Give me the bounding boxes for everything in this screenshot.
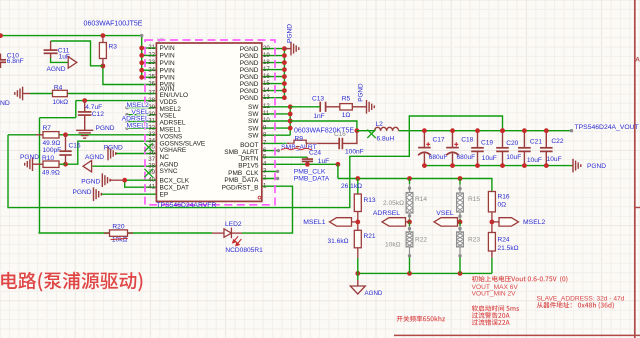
resistor R10 bbox=[43, 161, 59, 167]
svg-text:6.8uH: 6.8uH bbox=[377, 136, 395, 143]
svg-text:SW: SW bbox=[248, 118, 259, 125]
svg-text:26: 26 bbox=[148, 81, 155, 88]
svg-text:26.1kΩ: 26.1kΩ bbox=[341, 183, 362, 190]
svg-text:PGND: PGND bbox=[104, 145, 123, 152]
svg-text:C15: C15 bbox=[69, 143, 81, 150]
svg-text:TPS546D24A_VOUT: TPS546D24A_VOUT bbox=[575, 124, 639, 131]
svg-text:17: 17 bbox=[263, 66, 270, 73]
wire R16/R24 column bbox=[491, 212, 493, 233]
port MSEL1 bbox=[330, 218, 352, 226]
PGND port on VSHARE row bbox=[108, 147, 116, 161]
svg-text:MSEL1: MSEL1 bbox=[303, 219, 326, 226]
wire SW pin 10 stub bbox=[262, 120, 290, 122]
svg-text:SYNC: SYNC bbox=[160, 168, 178, 175]
blue note device address bbox=[537, 302, 614, 309]
junction VOUT sense tap bbox=[500, 128, 505, 133]
svg-text:VOUT_MIN 2V: VOUT_MIN 2V bbox=[472, 291, 517, 298]
sheet border right edge bbox=[634, 0, 636, 338]
svg-text:AGND: AGND bbox=[365, 290, 383, 297]
svg-text:PGND: PGND bbox=[240, 60, 259, 67]
red note soft start bbox=[472, 305, 519, 311]
svg-text:NCD0805R1: NCD0805R1 bbox=[225, 247, 263, 254]
svg-text:PMB_CLK: PMB_CLK bbox=[228, 170, 259, 177]
wire AGND row pin 38 bbox=[92, 165, 156, 167]
svg-text:10uF: 10uF bbox=[482, 155, 497, 162]
wire SW pin 12 stub bbox=[262, 106, 290, 108]
svg-text:PMB_DATA: PMB_DATA bbox=[224, 177, 259, 184]
svg-text:4.7uF: 4.7uF bbox=[85, 104, 102, 111]
svg-text:LED2: LED2 bbox=[225, 221, 242, 228]
wire PGND bus right of IC bbox=[283, 49, 285, 98]
svg-text:15: 15 bbox=[263, 80, 270, 87]
svg-text:16: 16 bbox=[263, 73, 270, 80]
capacitor C16 bbox=[339, 138, 342, 149]
capacitor C20 10uF bbox=[496, 131, 509, 166]
svg-text:R21: R21 bbox=[364, 233, 376, 240]
svg-text:13: 13 bbox=[263, 94, 270, 101]
wire EN/UVLO row pin 28 bbox=[76, 100, 157, 102]
wire PGND pin 15 stub bbox=[262, 83, 285, 85]
svg-text:R9: R9 bbox=[295, 135, 304, 142]
svg-text:R5: R5 bbox=[342, 95, 351, 102]
svg-text:25: 25 bbox=[148, 74, 155, 81]
svg-text:PGND: PGND bbox=[240, 46, 259, 53]
svg-text:20: 20 bbox=[263, 45, 270, 52]
svg-text:PGND: PGND bbox=[240, 74, 259, 81]
svg-text:R20: R20 bbox=[112, 223, 124, 230]
wire AGND below divider bbox=[357, 273, 359, 280]
wire SMB_ALRT stub bbox=[262, 150, 279, 152]
svg-text:1Ω: 1Ω bbox=[342, 112, 351, 119]
svg-text:SW: SW bbox=[248, 104, 259, 111]
svg-text:21.5kΩ: 21.5kΩ bbox=[498, 245, 519, 252]
svg-text:10kΩ: 10kΩ bbox=[53, 99, 69, 106]
svg-text:C20: C20 bbox=[506, 140, 518, 147]
wire output PGND rail bbox=[424, 165, 571, 167]
resistor R13 bbox=[354, 194, 361, 212]
svg-text:21: 21 bbox=[148, 44, 155, 51]
wire R3 bottom to PVIN pin 26 bbox=[103, 66, 156, 85]
junction C24 bottom bbox=[305, 162, 310, 167]
svg-text:VDD5: VDD5 bbox=[160, 99, 178, 106]
svg-text:AGND: AGND bbox=[47, 66, 66, 73]
wire C11 loop top bbox=[51, 41, 103, 66]
resistor R5 bbox=[340, 104, 353, 110]
wire net label stub MSEL1 bbox=[127, 127, 156, 129]
wire SW bus bbox=[289, 107, 291, 135]
svg-text:SLAVE_ADDRESS: 32d - 47d: SLAVE_ADDRESS: 32d - 47d bbox=[537, 296, 625, 303]
svg-text:R10: R10 bbox=[42, 155, 54, 162]
junction BP1V5 corner bbox=[336, 162, 341, 167]
svg-text:R3: R3 bbox=[109, 44, 118, 51]
junction SW-L2-boot bbox=[355, 128, 360, 133]
wire net label stub MSEL2 bbox=[127, 107, 156, 109]
svg-text:C21: C21 bbox=[530, 139, 542, 146]
junction R7-C15 bbox=[63, 132, 68, 137]
wire snubber row C13 bbox=[290, 106, 314, 108]
wire PVIN pin 21 stub bbox=[142, 47, 157, 49]
wire EN down to PG chain bbox=[75, 101, 77, 118]
svg-text:BCX_DAT: BCX_DAT bbox=[160, 184, 190, 191]
ground symbol left of R4 bbox=[15, 87, 23, 101]
capacitor C13 bbox=[320, 102, 325, 112]
wire R15/R23 column bbox=[459, 179, 461, 185]
no-ERC marker SYNC bbox=[144, 169, 152, 177]
svg-text:10uF: 10uF bbox=[527, 157, 542, 164]
PGND bus power port bbox=[291, 42, 299, 56]
gray endpoint top rail bbox=[140, 34, 143, 37]
capacitor C24 bbox=[302, 157, 313, 164]
sheet border bottom edge bbox=[394, 334, 640, 336]
svg-text:PGND: PGND bbox=[240, 95, 259, 102]
wire R20 to left vertical bbox=[39, 232, 110, 234]
svg-text:31.6kΩ: 31.6kΩ bbox=[328, 238, 349, 245]
wire SW to L2 bbox=[290, 121, 357, 131]
svg-text:BOOT: BOOT bbox=[240, 142, 258, 149]
resistor R15 (DNP) bbox=[457, 193, 464, 212]
svg-text:PGND: PGND bbox=[20, 154, 39, 161]
svg-text:PGND: PGND bbox=[240, 53, 259, 60]
svg-text:PGND: PGND bbox=[240, 67, 259, 74]
wire PMB_CLK stub bbox=[262, 170, 278, 172]
svg-text:R13: R13 bbox=[364, 197, 376, 204]
svg-text:1uF: 1uF bbox=[318, 158, 329, 165]
resistor R24 bbox=[488, 233, 495, 252]
svg-text:22: 22 bbox=[148, 52, 155, 59]
svg-text:18: 18 bbox=[263, 59, 270, 66]
PGND port BCX rows bbox=[102, 173, 110, 187]
junction C12 on EN wire bbox=[82, 98, 87, 103]
svg-text:C17: C17 bbox=[433, 137, 445, 144]
port MSEL2 bbox=[499, 218, 519, 226]
resistor R14 (DNP) bbox=[406, 193, 413, 214]
svg-text:PVIN: PVIN bbox=[160, 75, 175, 82]
svg-text:MSEL2: MSEL2 bbox=[523, 219, 546, 226]
LED LED2 bbox=[212, 228, 242, 239]
svg-text:19: 19 bbox=[263, 52, 270, 59]
wire LED to R20 bbox=[128, 232, 213, 234]
wire R10 row bbox=[33, 163, 44, 165]
wire divider top rail BP1V5 bbox=[338, 179, 492, 192]
wire R13 column bbox=[357, 179, 359, 195]
svg-text:ADRSEL: ADRSEL bbox=[373, 210, 400, 217]
resistor R9 bbox=[294, 140, 306, 146]
svg-text:L2: L2 bbox=[376, 121, 384, 128]
svg-text:PGND: PGND bbox=[81, 179, 100, 186]
wire PGND pin 17 stub bbox=[262, 69, 285, 71]
svg-text:TPS546D24ARVFR: TPS546D24ARVFR bbox=[156, 202, 216, 209]
resistor R7 bbox=[43, 132, 59, 138]
resistor R3 bbox=[99, 43, 106, 59]
wire top input rail bbox=[0, 35, 142, 37]
junction top rail left edge bbox=[0, 33, 3, 38]
wire PGD/RST_B to LED row bbox=[242, 186, 293, 233]
no-ERC marker VSHARE bbox=[144, 143, 152, 151]
wire R7 row pin 33 bbox=[8, 134, 36, 136]
svg-text:SW: SW bbox=[248, 125, 259, 132]
svg-text:C18: C18 bbox=[461, 136, 473, 143]
svg-text:EP: EP bbox=[160, 191, 169, 198]
svg-text:10kΩ: 10kΩ bbox=[385, 241, 401, 248]
svg-text:VSEL: VSEL bbox=[436, 210, 454, 217]
resistor R22 (DNP) bbox=[406, 232, 413, 247]
AGND power port near C11 bbox=[68, 57, 77, 69]
resistor R21 bbox=[354, 230, 361, 248]
svg-text:PGND: PGND bbox=[73, 189, 92, 196]
svg-text:PVIN: PVIN bbox=[160, 67, 175, 74]
wire PGND pin 13 stub bbox=[262, 97, 285, 99]
U1 right pin names and numbers bbox=[222, 45, 271, 192]
capacitor C11 bbox=[44, 41, 58, 58]
svg-text:SW: SW bbox=[248, 111, 259, 118]
svg-text:C19: C19 bbox=[481, 139, 493, 146]
PGND port left of R10 bbox=[25, 157, 33, 171]
svg-text:PMB_DATA: PMB_DATA bbox=[294, 176, 330, 183]
capacitor C15 bbox=[59, 135, 71, 164]
wire SW pin 11 stub bbox=[262, 113, 290, 115]
svg-text:PGND: PGND bbox=[587, 163, 606, 170]
svg-text:PVIN: PVIN bbox=[160, 45, 175, 52]
wire PGND pin 18 stub bbox=[262, 62, 285, 64]
svg-text:10: 10 bbox=[263, 117, 270, 124]
svg-text:100nF: 100nF bbox=[345, 148, 364, 155]
svg-text:R7: R7 bbox=[43, 125, 52, 132]
svg-text:PGND: PGND bbox=[358, 83, 365, 102]
svg-text:14: 14 bbox=[263, 87, 270, 94]
svg-text:PMB_CLK: PMB_CLK bbox=[294, 168, 326, 175]
gray endpoint VOUT label bbox=[570, 129, 573, 132]
svg-text:R16: R16 bbox=[498, 193, 510, 200]
svg-text:NC: NC bbox=[160, 154, 170, 161]
capacitor C19 10uF bbox=[471, 131, 484, 166]
selection dashed box around U1 bbox=[145, 40, 275, 205]
wire DRTN row to C24 bbox=[262, 156, 308, 158]
junction BCX rows bbox=[122, 178, 127, 183]
wire PVIN pin 23 stub bbox=[142, 62, 157, 64]
svg-text:PGD/RST_B: PGD/RST_B bbox=[222, 185, 259, 192]
U1 EP pin marker bbox=[258, 196, 261, 199]
AGND power port below divider bbox=[350, 286, 365, 294]
PGND port output rail bbox=[573, 159, 581, 173]
svg-text:MSEL1: MSEL1 bbox=[127, 123, 150, 130]
svg-text:R22: R22 bbox=[415, 237, 427, 244]
svg-text:100pF: 100pF bbox=[43, 147, 62, 154]
svg-text:23: 23 bbox=[148, 59, 155, 66]
IC U1 TPS546D24ARVFR body bbox=[156, 43, 261, 201]
wire BCX_DAT row pin 41 bbox=[125, 180, 157, 187]
resistor R20 bbox=[104, 232, 110, 234]
wire PGND bus to ground bbox=[284, 48, 291, 50]
wire L2 output row VOUT rail bbox=[357, 130, 375, 132]
svg-text:PVIN: PVIN bbox=[160, 60, 175, 67]
wire BP1V5 down to divider rail bbox=[337, 164, 339, 178]
junction top rail at R3 bbox=[101, 33, 106, 38]
capacitor C21 10uF bbox=[518, 131, 531, 166]
wire PGND pin 16 stub bbox=[262, 76, 285, 78]
wire left vertical to R20 row bbox=[39, 118, 41, 233]
sheet zone tick bbox=[634, 207, 640, 209]
wire PGND pin 20 stub bbox=[262, 48, 285, 50]
U1 left pin names and numbers bbox=[148, 44, 206, 198]
wire EN chain horizontal bbox=[40, 117, 76, 119]
svg-text:ADRSEL: ADRSEL bbox=[160, 120, 186, 127]
wire PVIN pin 25 stub bbox=[142, 76, 157, 78]
capacitor C22 10uF bbox=[540, 131, 553, 166]
wire PMB_DATA stub bbox=[262, 178, 278, 180]
svg-text:SW: SW bbox=[248, 132, 259, 139]
port ADRSEL bbox=[382, 218, 406, 226]
junction R10-C15 bbox=[63, 162, 68, 167]
svg-text:C13: C13 bbox=[312, 95, 324, 102]
svg-text:1nF: 1nF bbox=[313, 113, 324, 120]
svg-text:12: 12 bbox=[263, 103, 270, 110]
svg-text:C24: C24 bbox=[309, 150, 321, 157]
wire SW pin 8 stub bbox=[262, 134, 290, 136]
AGND port pin38 bbox=[83, 160, 92, 172]
capacitor C17 680uF bbox=[418, 131, 431, 166]
svg-text:PGND: PGND bbox=[240, 81, 259, 88]
svg-text:0603WAF100JT5E: 0603WAF100JT5E bbox=[84, 21, 143, 28]
svg-text:R23: R23 bbox=[468, 237, 480, 244]
red note OC warn bbox=[472, 312, 510, 318]
junction R3 bottom bbox=[101, 64, 106, 69]
capacitor C12 bbox=[78, 101, 92, 131]
wire PVIN pin 24 stub bbox=[142, 69, 157, 71]
wire PGND pin 19 stub bbox=[262, 55, 285, 57]
svg-text:R4: R4 bbox=[54, 85, 63, 92]
svg-text:C16: C16 bbox=[334, 131, 346, 138]
svg-text:40: 40 bbox=[148, 176, 155, 183]
svg-text:AGND: AGND bbox=[85, 154, 104, 161]
svg-text:C12: C12 bbox=[92, 111, 104, 118]
svg-text:0Ω: 0Ω bbox=[498, 202, 507, 209]
svg-text:2.05kΩ: 2.05kΩ bbox=[383, 200, 404, 207]
wire SW pin 9 stub bbox=[262, 127, 290, 129]
svg-text:ND: ND bbox=[0, 100, 10, 107]
PGND port after R5 bbox=[367, 100, 375, 114]
svg-text:PGND: PGND bbox=[240, 88, 259, 95]
port VSEL bbox=[434, 218, 458, 226]
no-ERC marker L2 bbox=[367, 130, 375, 138]
wire EP row bbox=[102, 193, 157, 195]
wire PGND pin 14 stub bbox=[262, 90, 285, 92]
PGND port EP row bbox=[94, 187, 102, 201]
svg-text:680uF: 680uF bbox=[457, 154, 476, 161]
svg-text:PVIN: PVIN bbox=[160, 53, 175, 60]
svg-text:28: 28 bbox=[148, 97, 155, 104]
svg-text:DRTN: DRTN bbox=[241, 156, 259, 163]
wire net label stub ADRSEL bbox=[127, 121, 156, 123]
capacitor C18 680uF bbox=[446, 131, 459, 166]
svg-text:49.9Ω: 49.9Ω bbox=[42, 170, 60, 177]
svg-text:10uF: 10uF bbox=[547, 156, 562, 163]
wire BP1V5 row bbox=[262, 163, 338, 165]
wire net label stub VSEL bbox=[127, 114, 156, 116]
PGND ground below C12 bbox=[76, 130, 93, 138]
resistor R4 bbox=[53, 90, 68, 96]
resistor R16 bbox=[488, 192, 495, 212]
svg-text:EN/UVLO: EN/UVLO bbox=[160, 92, 189, 99]
wire AVIN row R4 to IC pin 27 bbox=[30, 93, 53, 95]
resistor R23 (DNP) bbox=[457, 232, 464, 247]
svg-text:A: A bbox=[635, 57, 640, 64]
wire PVIN vertical bus bbox=[141, 36, 143, 78]
svg-text:49.9Ω: 49.9Ω bbox=[43, 140, 61, 147]
svg-text:11: 11 bbox=[263, 110, 270, 117]
wire PVIN pin 22 stub bbox=[142, 54, 157, 56]
svg-text:6.8nF: 6.8nF bbox=[7, 58, 24, 65]
svg-text:BCX_CLK: BCX_CLK bbox=[160, 177, 190, 184]
red note initial voltage bbox=[472, 276, 568, 283]
svg-text:24: 24 bbox=[148, 66, 155, 73]
svg-text:R14: R14 bbox=[415, 196, 427, 203]
svg-text:41: 41 bbox=[148, 183, 155, 190]
wire C15 bottom to pin 34 riser bbox=[66, 141, 157, 164]
inductor L2 bbox=[375, 127, 399, 130]
svg-text:PGND: PGND bbox=[96, 125, 115, 132]
svg-text:680uF: 680uF bbox=[429, 154, 448, 161]
svg-text:VOSNS: VOSNS bbox=[160, 133, 183, 140]
svg-text:MSEL2: MSEL2 bbox=[127, 102, 150, 109]
wire R14/R22 column bbox=[409, 179, 411, 185]
wire BCX_CLK row pin 40 bbox=[109, 179, 124, 181]
wire BOOT row R9 C16 bbox=[262, 142, 287, 144]
svg-text:BP1V5: BP1V5 bbox=[238, 163, 259, 170]
red note switching freq bbox=[397, 316, 445, 322]
svg-text:29: 29 bbox=[148, 104, 155, 111]
svg-text:27: 27 bbox=[148, 90, 155, 97]
wire remote sense loop bbox=[8, 116, 503, 208]
wire C11 bottom to AGND bbox=[51, 58, 68, 62]
wire divider bottom rail AGND bbox=[358, 272, 492, 274]
svg-text:PGND: PGND bbox=[287, 24, 294, 43]
wire VSHARE PGND row pin 36 bbox=[115, 153, 156, 155]
capacitor C10 bbox=[0, 54, 6, 69]
svg-text:R24: R24 bbox=[498, 237, 510, 244]
svg-text:10uF: 10uF bbox=[506, 154, 521, 161]
svg-text:R15: R15 bbox=[468, 196, 480, 203]
red note OC fault bbox=[472, 319, 510, 325]
svg-text:C22: C22 bbox=[551, 138, 563, 145]
red note title bottom-left bbox=[1, 272, 142, 292]
